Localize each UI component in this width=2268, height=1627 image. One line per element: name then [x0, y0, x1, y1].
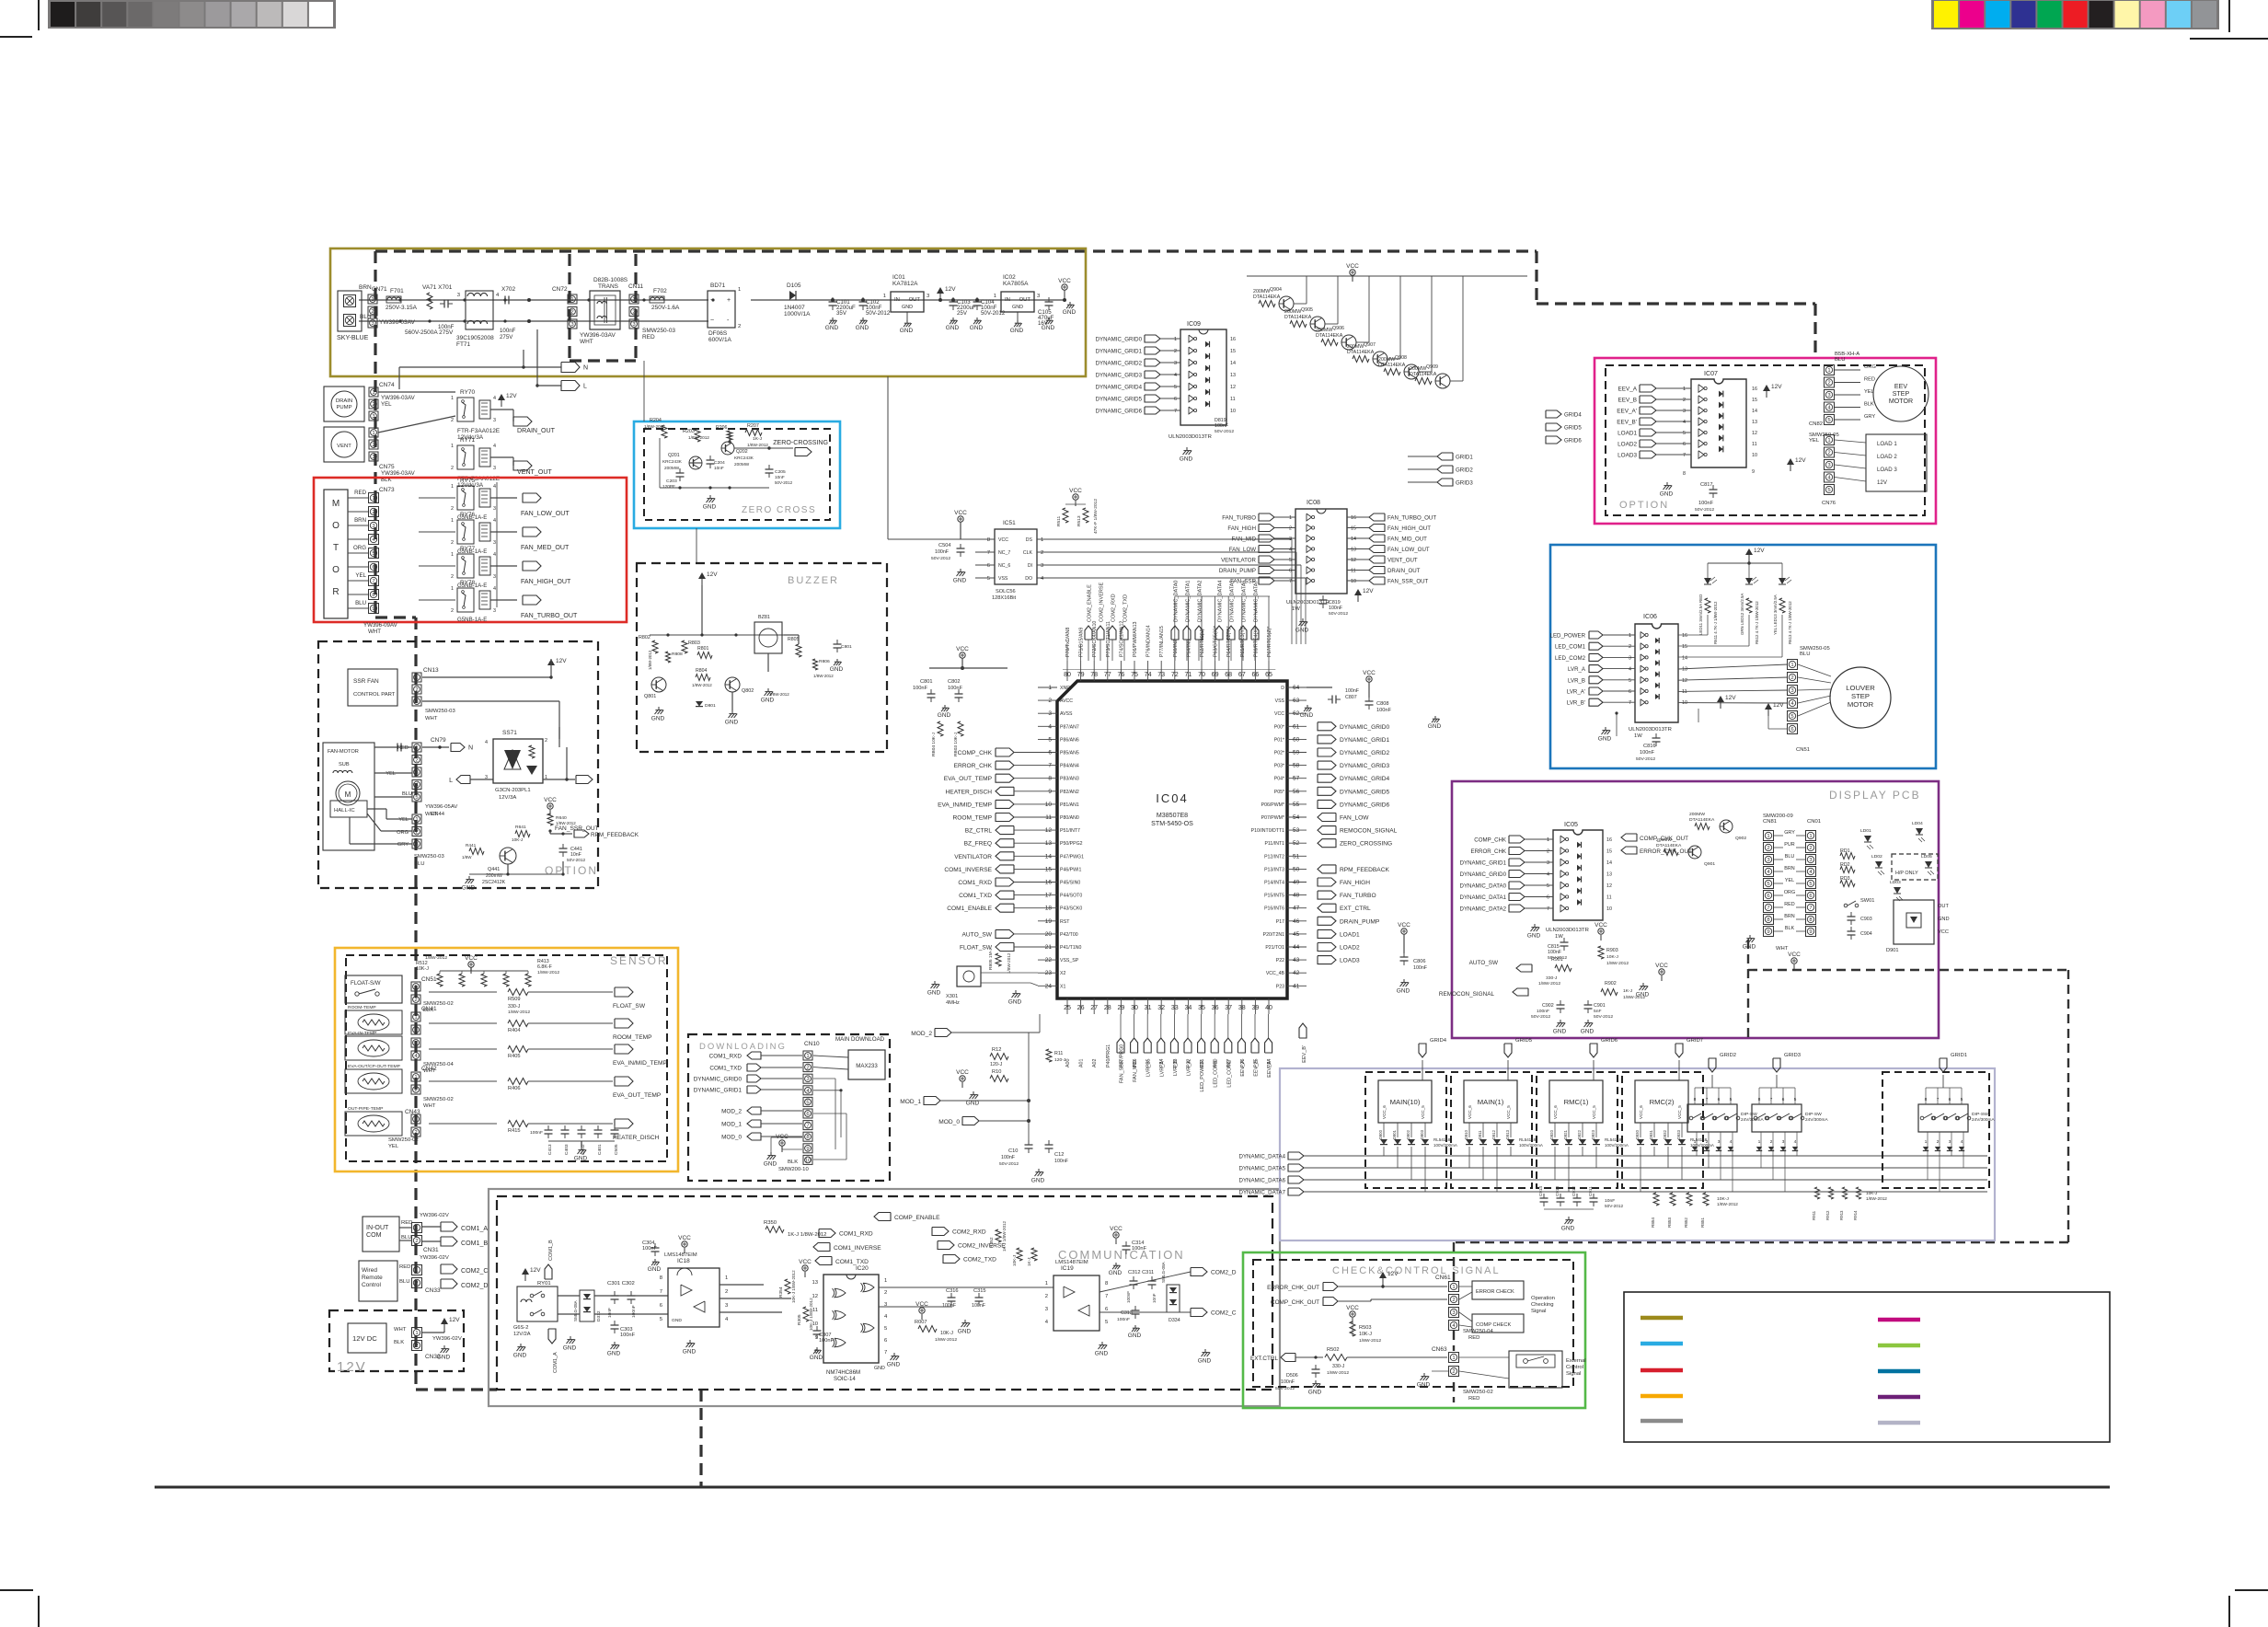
- svg-text:D334: D334: [1169, 1318, 1180, 1323]
- svg-text:LOAD3: LOAD3: [1340, 958, 1360, 964]
- svg-text:8: 8: [1048, 776, 1052, 782]
- svg-text:LOAD 2: LOAD 2: [1877, 454, 1897, 460]
- svg-text:RY01: RY01: [537, 1281, 551, 1287]
- svg-text:128X16Bit: 128X16Bit: [992, 595, 1017, 601]
- svg-text:63: 63: [1293, 698, 1300, 704]
- svg-text:CN76: CN76: [1822, 501, 1836, 506]
- svg-text:100nF: 100nF: [1640, 750, 1655, 756]
- svg-text:1/8W: 1/8W: [462, 855, 472, 860]
- svg-text:3: 3: [1629, 655, 1631, 661]
- svg-text:10nF: 10nF: [775, 475, 785, 479]
- svg-text:GRID6: GRID6: [1564, 438, 1582, 444]
- svg-text:2: 2: [1770, 1139, 1773, 1145]
- svg-text:ERROR_CHK: ERROR_CHK: [1471, 848, 1507, 855]
- svg-text:DYNAMIC_DATA5: DYNAMIC_DATA5: [1230, 581, 1236, 622]
- svg-text:BZ_CTRL: BZ_CTRL: [965, 828, 993, 835]
- svg-text:SOLC56: SOLC56: [996, 589, 1016, 594]
- svg-text:3: 3: [1048, 710, 1052, 717]
- svg-text:1: 1: [372, 496, 374, 502]
- svg-text:3: 3: [485, 775, 488, 780]
- svg-text:GRID2: GRID2: [1456, 467, 1473, 474]
- svg-text:77: 77: [1104, 671, 1111, 678]
- svg-text:R913: R913: [1839, 1210, 1844, 1220]
- svg-text:R513: R513: [1076, 515, 1082, 526]
- svg-text:1: 1: [1452, 1356, 1455, 1361]
- svg-text:D910: D910: [1464, 1129, 1468, 1139]
- svg-text:54: 54: [1293, 814, 1300, 821]
- svg-text:BRN: BRN: [1784, 866, 1795, 871]
- svg-text:GND: GND: [1308, 1389, 1322, 1395]
- svg-text:DYNAMIC_GRID6: DYNAMIC_GRID6: [1096, 409, 1143, 415]
- svg-text:COMP_CHK: COMP_CHK: [1474, 837, 1507, 844]
- svg-text:YW396-02V: YW396-02V: [432, 1336, 462, 1342]
- svg-text:RD1: RD1: [1840, 848, 1850, 854]
- svg-text:7: 7: [1105, 1294, 1108, 1299]
- svg-text:12V: 12V: [449, 1317, 460, 1323]
- svg-text:4: 4: [1794, 1139, 1797, 1145]
- svg-text:R902: R902: [1605, 981, 1617, 987]
- svg-text:50V-2012: 50V-2012: [866, 310, 891, 317]
- svg-text:10K-J: 10K-J: [1012, 1255, 1017, 1266]
- svg-text:COM1_INVERSE: COM1_INVERSE: [944, 867, 992, 873]
- svg-text:1: 1: [415, 745, 418, 751]
- svg-text:D901: D901: [1886, 948, 1899, 953]
- svg-text:YW396-03AV: YW396-03AV: [381, 395, 416, 401]
- svg-text:71: 71: [1184, 671, 1192, 678]
- svg-text:VENT_OUT: VENT_OUT: [517, 468, 552, 476]
- svg-text:Operation: Operation: [1531, 1296, 1555, 1301]
- svg-text:COMP_CHK: COMP_CHK: [958, 750, 993, 756]
- svg-text:GND: GND: [927, 989, 941, 996]
- svg-text:+: +: [727, 297, 731, 304]
- svg-text:VENT_OUT: VENT_OUT: [1387, 558, 1418, 564]
- svg-text:BLK: BLK: [1785, 926, 1795, 931]
- svg-text:275V: 275V: [500, 334, 513, 340]
- svg-text:R502: R502: [1327, 1347, 1340, 1353]
- svg-text:R611 4.7K-J 1/8W-2012: R611 4.7K-J 1/8W-2012: [1713, 601, 1718, 644]
- svg-text:6: 6: [1174, 397, 1177, 402]
- svg-text:9: 9: [1809, 929, 1812, 935]
- svg-text:CN51: CN51: [1796, 747, 1810, 753]
- svg-text:100nF: 100nF: [1698, 501, 1714, 506]
- svg-text:50V-2012: 50V-2012: [1215, 429, 1234, 434]
- svg-text:VCC_6: VCC_6: [1382, 1105, 1387, 1119]
- svg-text:GND: GND: [725, 719, 739, 725]
- svg-text:DYNAMIC_GRID1: DYNAMIC_GRID1: [1460, 860, 1507, 867]
- svg-text:50V-2012: 50V-2012: [1695, 507, 1714, 513]
- svg-text:VCC: VCC: [1655, 963, 1668, 969]
- svg-text:47K-F 1/8W-2012: 47K-F 1/8W-2012: [1093, 499, 1099, 534]
- svg-text:R808: R808: [672, 652, 683, 657]
- svg-text:LD01: LD01: [1860, 828, 1871, 834]
- svg-text:4: 4: [493, 552, 496, 558]
- svg-text:P85/AN5: P85/AN5: [1060, 751, 1079, 756]
- svg-text:18: 18: [1045, 906, 1053, 912]
- svg-text:ZERO CROSS: ZERO CROSS: [742, 505, 816, 515]
- svg-text:GND: GND: [563, 1344, 577, 1351]
- svg-text:Q904: Q904: [1270, 287, 1282, 293]
- svg-text:DYNAMIC_DATA2: DYNAMIC_DATA2: [1198, 581, 1203, 622]
- svg-text:VSS_SP: VSS_SP: [1060, 958, 1079, 964]
- svg-text:D801: D801: [705, 703, 716, 709]
- svg-text:P82/AN2: P82/AN2: [1060, 790, 1079, 795]
- svg-text:R911: R911: [1812, 1210, 1816, 1220]
- svg-text:NM74HC86M: NM74HC86M: [826, 1369, 860, 1376]
- svg-text:DYNAMIC_DATA7: DYNAMIC_DATA7: [1239, 1190, 1286, 1196]
- svg-text:C301 C302: C301 C302: [607, 1281, 635, 1287]
- svg-text:LVR_A: LVR_A: [1568, 666, 1586, 673]
- svg-text:SMW250-03: SMW250-03: [414, 854, 444, 860]
- svg-text:EEV_B': EEV_B': [1617, 420, 1637, 426]
- svg-text:10nF: 10nF: [714, 466, 724, 470]
- svg-text:P67/RTC5(Z)*: P67/RTC5(Z)*: [1267, 627, 1272, 657]
- svg-text:35V: 35V: [836, 310, 847, 317]
- svg-text:SS71: SS71: [502, 730, 517, 736]
- svg-text:C413: C413: [547, 1144, 553, 1155]
- svg-text:VCC: VCC: [1938, 929, 1949, 935]
- svg-text:YW396-09AV: YW396-09AV: [363, 622, 398, 629]
- svg-text:LED_COM2: LED_COM2: [1555, 655, 1586, 662]
- svg-text:SMW250-02: SMW250-02: [423, 1097, 454, 1102]
- svg-text:RED: RED: [1468, 1396, 1479, 1402]
- svg-text:DTA114EKA: DTA114EKA: [1689, 817, 1715, 823]
- svg-text:VCC: VCC: [1069, 488, 1082, 494]
- svg-text:13: 13: [1351, 548, 1356, 553]
- svg-text:Control: Control: [362, 1282, 381, 1288]
- svg-text:7: 7: [987, 550, 990, 556]
- svg-text:1/8W-2012: 1/8W-2012: [508, 1010, 530, 1015]
- svg-text:CN51: CN51: [421, 976, 437, 983]
- svg-text:1/8W-2012: 1/8W-2012: [537, 970, 559, 975]
- svg-text:GND: GND: [856, 325, 869, 331]
- svg-text:COM1_TXD: COM1_TXD: [835, 1259, 869, 1265]
- svg-text:VCC: VCC: [1398, 922, 1410, 929]
- svg-text:CN61: CN61: [1435, 1275, 1451, 1281]
- svg-text:GND: GND: [1598, 735, 1612, 742]
- svg-text:P07/PWM*: P07/PWM*: [1261, 815, 1284, 821]
- svg-text:X301: X301: [946, 994, 958, 999]
- svg-text:Q906: Q906: [1332, 326, 1344, 331]
- svg-text:GRY: GRY: [1784, 830, 1795, 836]
- svg-text:1: 1: [415, 1226, 418, 1231]
- svg-text:P81/AN1: P81/AN1: [1060, 802, 1079, 808]
- svg-text:LD02: LD02: [1871, 854, 1882, 860]
- svg-text:66: 66: [1251, 671, 1259, 678]
- svg-text:LD05: LD05: [1921, 854, 1932, 860]
- svg-text:MOTOR: MOTOR: [1889, 398, 1913, 405]
- svg-text:41: 41: [1293, 983, 1300, 989]
- svg-text:14: 14: [1230, 361, 1236, 366]
- svg-text:P80/AN0: P80/AN0: [1060, 815, 1079, 821]
- svg-text:P41/T1N0: P41/T1N0: [1060, 945, 1081, 951]
- svg-text:GND: GND: [1581, 1028, 1595, 1034]
- svg-text:P01*: P01*: [1274, 737, 1284, 743]
- svg-text:DRAIN_OUT: DRAIN_OUT: [1387, 568, 1421, 574]
- svg-text:OPTION: OPTION: [1619, 500, 1669, 511]
- svg-text:C903: C903: [1860, 917, 1872, 922]
- svg-text:R511: R511: [1056, 516, 1062, 526]
- svg-text:P43/SCK0: P43/SCK0: [1060, 906, 1082, 912]
- svg-text:D931: D931: [1649, 1129, 1653, 1139]
- svg-text:200MW: 200MW: [1656, 837, 1672, 843]
- svg-text:RL54148: RL54148: [1519, 1137, 1537, 1142]
- svg-text:C913: C913: [1555, 1186, 1560, 1196]
- svg-text:11: 11: [1351, 569, 1356, 574]
- svg-text:100V/200mA: 100V/200mA: [1519, 1143, 1543, 1148]
- svg-text:30: 30: [1131, 1004, 1138, 1011]
- svg-text:12V: 12V: [1387, 1271, 1399, 1277]
- svg-text:VCC: VCC: [1595, 922, 1607, 929]
- svg-text:VCC_5: VCC_5: [1421, 1105, 1425, 1119]
- svg-text:C401: C401: [597, 1144, 603, 1155]
- svg-text:9: 9: [815, 1335, 818, 1341]
- svg-text:STM-5450-OS: STM-5450-OS: [1151, 820, 1193, 827]
- svg-text:R612 4.7K-J 1/8W-2012: R612 4.7K-J 1/8W-2012: [1755, 601, 1759, 644]
- svg-text:1: 1: [1629, 633, 1631, 639]
- svg-text:29: 29: [1117, 1004, 1124, 1011]
- svg-text:2: 2: [451, 540, 454, 546]
- svg-text:C315: C315: [973, 1288, 986, 1294]
- svg-text:VCC: VCC: [799, 1259, 812, 1265]
- svg-text:Control: Control: [1566, 1365, 1583, 1370]
- svg-text:DYNAMIC_DATA1: DYNAMIC_DATA1: [1186, 581, 1192, 622]
- svg-text:FAN_TURBO_OUT: FAN_TURBO_OUT: [1387, 515, 1436, 522]
- svg-text:2: 2: [1452, 1298, 1455, 1303]
- svg-text:FT71: FT71: [456, 341, 471, 348]
- svg-text:13: 13: [1230, 373, 1236, 378]
- svg-text:P45/SIN0: P45/SIN0: [1060, 881, 1080, 886]
- svg-text:RED: RED: [1784, 902, 1795, 907]
- svg-text:GND: GND: [1636, 991, 1650, 998]
- svg-text:1: 1: [1041, 537, 1043, 543]
- svg-text:R801: R801: [697, 646, 709, 652]
- svg-text:LOAD 3: LOAD 3: [1877, 467, 1897, 473]
- svg-text:15: 15: [1351, 526, 1356, 532]
- svg-text:C10: C10: [1008, 1148, 1018, 1154]
- svg-text:G3CN-203PL1: G3CN-203PL1: [495, 788, 531, 793]
- svg-text:72: 72: [1171, 671, 1179, 678]
- svg-text:ULN2003D013TR: ULN2003D013TR: [1629, 727, 1672, 733]
- svg-text:1: 1: [1827, 438, 1830, 444]
- svg-text:28: 28: [1104, 1004, 1111, 1011]
- svg-text:VENTILATOR: VENTILATOR: [1221, 558, 1256, 564]
- svg-text:2: 2: [725, 1289, 728, 1295]
- svg-text:YW396-05AV: YW396-05AV: [425, 804, 457, 810]
- svg-text:BLU: BLU: [1835, 357, 1845, 363]
- svg-text:CN41: CN41: [421, 1006, 437, 1012]
- svg-text:DYNAMIC_GRID0: DYNAMIC_GRID0: [1340, 724, 1390, 731]
- svg-text:2: 2: [415, 830, 418, 836]
- svg-text:F701: F701: [390, 288, 404, 294]
- svg-text:600V/1A: 600V/1A: [708, 337, 732, 343]
- svg-text:LVR_B: LVR_B: [1173, 1060, 1179, 1076]
- svg-text:BLU: BLU: [360, 314, 372, 320]
- svg-text:22: 22: [1045, 957, 1053, 964]
- svg-text:D912: D912: [1491, 1129, 1496, 1139]
- svg-text:1: 1: [1827, 368, 1830, 374]
- svg-text:RED: RED: [401, 1220, 412, 1226]
- svg-text:P87/AN7: P87/AN7: [1060, 724, 1079, 730]
- svg-text:200MW: 200MW: [734, 462, 750, 467]
- svg-text:P23: P23: [1276, 984, 1284, 989]
- svg-text:GND: GND: [1198, 1357, 1212, 1364]
- svg-text:WHT: WHT: [368, 629, 381, 635]
- svg-text:C316: C316: [946, 1288, 959, 1294]
- svg-text:MOD_1: MOD_1: [721, 1122, 742, 1128]
- svg-text:VCC_6: VCC_6: [1553, 1105, 1558, 1119]
- svg-text:5: 5: [1629, 678, 1631, 684]
- svg-text:5: 5: [1547, 883, 1549, 889]
- svg-text:HEATER_DISCH: HEATER_DISCH: [946, 789, 993, 795]
- svg-text:16: 16: [1682, 633, 1687, 639]
- svg-text:MOD_2: MOD_2: [721, 1109, 742, 1115]
- svg-text:VSS: VSS: [1275, 698, 1285, 704]
- svg-text:X1: X1: [1060, 984, 1065, 989]
- svg-text:Q441: Q441: [488, 867, 500, 872]
- svg-text:DYNAMIC_GRID2: DYNAMIC_GRID2: [1096, 361, 1143, 367]
- svg-text:FAN_HIGH_OUT: FAN_HIGH_OUT: [1387, 525, 1431, 532]
- svg-text:R007: R007: [915, 1320, 927, 1325]
- svg-text:9: 9: [1048, 789, 1052, 795]
- svg-text:MOD_0: MOD_0: [938, 1119, 960, 1125]
- svg-text:VCC_4B: VCC_4B: [1266, 971, 1285, 976]
- svg-text:330-J: 330-J: [508, 1004, 521, 1010]
- svg-text:RY78: RY78: [460, 580, 475, 586]
- svg-text:YW396-03AV: YW396-03AV: [381, 470, 416, 477]
- svg-text:D105: D105: [787, 283, 801, 289]
- svg-text:4: 4: [1547, 872, 1549, 878]
- svg-text:COMP_CHK_OUT: COMP_CHK_OUT: [1271, 1299, 1319, 1306]
- svg-text:69: 69: [1212, 671, 1219, 678]
- svg-text:6.8K-F: 6.8K-F: [537, 964, 553, 970]
- svg-text:GND: GND: [648, 1266, 662, 1273]
- svg-text:COM2_INVERSE: COM2_INVERSE: [1099, 582, 1105, 622]
- svg-text:59: 59: [1293, 750, 1300, 756]
- svg-text:DYNAMIC_GRID2: DYNAMIC_GRID2: [1340, 750, 1390, 756]
- svg-text:R912: R912: [1825, 1210, 1830, 1220]
- svg-text:2: 2: [1048, 698, 1052, 704]
- svg-text:SMW250-05: SMW250-05: [1809, 433, 1839, 438]
- svg-text:GND: GND: [825, 325, 839, 331]
- svg-text:GND: GND: [1397, 987, 1410, 994]
- svg-text:50V-2012: 50V-2012: [1329, 611, 1348, 617]
- svg-text:P14/INT4: P14/INT4: [1264, 881, 1284, 886]
- svg-text:FTR-F3AA012E: FTR-F3AA012E: [457, 428, 501, 434]
- svg-text:11: 11: [1752, 442, 1757, 447]
- svg-text:DTA114EKA: DTA114EKA: [1316, 333, 1343, 339]
- svg-text:YEL: YEL: [386, 771, 396, 777]
- svg-text:1/8W-2012: 1/8W-2012: [1538, 981, 1560, 987]
- svg-text:2: 2: [545, 738, 547, 744]
- svg-text:9: 9: [1767, 929, 1769, 935]
- svg-text:BRN: BRN: [1784, 914, 1795, 919]
- svg-text:EVA_IN/MID_TEMP: EVA_IN/MID_TEMP: [938, 802, 992, 808]
- svg-text:P83/AN3: P83/AN3: [1060, 777, 1079, 782]
- svg-text:TRANS: TRANS: [598, 283, 619, 290]
- svg-text:LVR_A': LVR_A': [1567, 689, 1585, 696]
- svg-text:2: 2: [1706, 1139, 1709, 1145]
- svg-text:O: O: [332, 565, 340, 575]
- svg-text:48: 48: [1293, 893, 1300, 899]
- svg-text:38: 38: [1238, 1004, 1246, 1011]
- svg-text:YEL: YEL: [1864, 389, 1874, 395]
- svg-text:SOIC-14: SOIC-14: [834, 1376, 856, 1382]
- svg-text:15: 15: [1752, 398, 1757, 403]
- svg-text:COMP_ENABLE: COMP_ENABLE: [894, 1215, 940, 1221]
- svg-text:2: 2: [884, 1290, 887, 1296]
- svg-text:1: 1: [451, 552, 454, 558]
- svg-text:IC01: IC01: [892, 274, 905, 281]
- svg-text:RD2: RD2: [1840, 862, 1850, 868]
- svg-text:GRN LED12 3mm/2.5A: GRN LED12 3mm/2.5A: [1740, 594, 1744, 635]
- svg-text:CN33: CN33: [425, 1287, 441, 1294]
- svg-text:1K-J: 1K-J: [753, 436, 763, 442]
- svg-text:Signal: Signal: [1566, 1371, 1581, 1377]
- svg-text:DTA114EKA: DTA114EKA: [1410, 372, 1437, 377]
- svg-text:7: 7: [1547, 906, 1549, 912]
- svg-text:CN01: CN01: [1807, 819, 1821, 825]
- svg-text:BRN: BRN: [359, 284, 372, 291]
- svg-text:1/8W-2012: 1/8W-2012: [813, 674, 834, 678]
- svg-text:1: 1: [1790, 663, 1793, 668]
- svg-text:ORG: ORG: [1784, 890, 1795, 895]
- svg-text:Q907: Q907: [1364, 342, 1376, 348]
- svg-text:4: 4: [1174, 373, 1177, 378]
- svg-text:ORG: ORG: [1864, 364, 1876, 370]
- svg-text:R441: R441: [466, 843, 477, 848]
- svg-text:P84/AN4: P84/AN4: [1060, 764, 1079, 769]
- svg-text:VCC_6: VCC_6: [1468, 1105, 1472, 1119]
- svg-text:R806: R806: [819, 659, 830, 664]
- svg-text:39C19052008: 39C19052008: [456, 335, 494, 341]
- svg-text:1/8W-2012: 1/8W-2012: [1717, 1202, 1738, 1206]
- svg-text:R805 1M-J: R805 1M-J: [988, 948, 994, 970]
- svg-text:SENSOR: SENSOR: [610, 954, 668, 967]
- svg-text:COM1_TXD: COM1_TXD: [959, 893, 992, 899]
- svg-text:RY70: RY70: [460, 389, 475, 396]
- svg-text:4: 4: [493, 586, 496, 592]
- svg-text:P05*: P05*: [1274, 790, 1284, 795]
- svg-text:1: 1: [1452, 1285, 1455, 1290]
- svg-text:14: 14: [1045, 853, 1053, 860]
- svg-text:LED_POWER: LED_POWER: [1550, 633, 1586, 640]
- svg-text:CN42: CN42: [421, 1066, 437, 1072]
- svg-text:Q901: Q901: [1704, 861, 1715, 867]
- svg-text:YW396-02V: YW396-02V: [420, 1255, 449, 1261]
- svg-text:YEL: YEL: [398, 817, 409, 823]
- svg-text:R805: R805: [788, 637, 800, 642]
- svg-text:BZ81: BZ81: [758, 615, 770, 620]
- svg-text:R10: R10: [992, 1069, 1001, 1075]
- svg-text:2: 2: [1174, 349, 1177, 354]
- svg-text:5: 5: [1048, 736, 1052, 743]
- svg-text:50V-2012: 50V-2012: [1531, 1014, 1550, 1020]
- svg-text:GND: GND: [683, 1348, 697, 1355]
- svg-text:VCC: VCC: [1110, 1226, 1122, 1232]
- svg-text:2: 2: [738, 324, 741, 329]
- svg-text:12V: 12V: [1877, 479, 1888, 486]
- svg-text:BLU: BLU: [1800, 652, 1810, 657]
- svg-text:1: 1: [1809, 834, 1812, 839]
- svg-text:VCC: VCC: [1346, 263, 1359, 270]
- svg-text:OUT: OUT: [909, 297, 921, 303]
- svg-text:12: 12: [812, 1294, 818, 1299]
- svg-text:C817: C817: [1700, 482, 1713, 488]
- svg-text:C312 C311: C312 C311: [1128, 1270, 1154, 1275]
- svg-text:10K-J: 10K-J: [940, 1331, 953, 1336]
- svg-text:AVCC: AVCC: [1060, 698, 1073, 704]
- svg-text:33: 33: [1171, 1004, 1179, 1011]
